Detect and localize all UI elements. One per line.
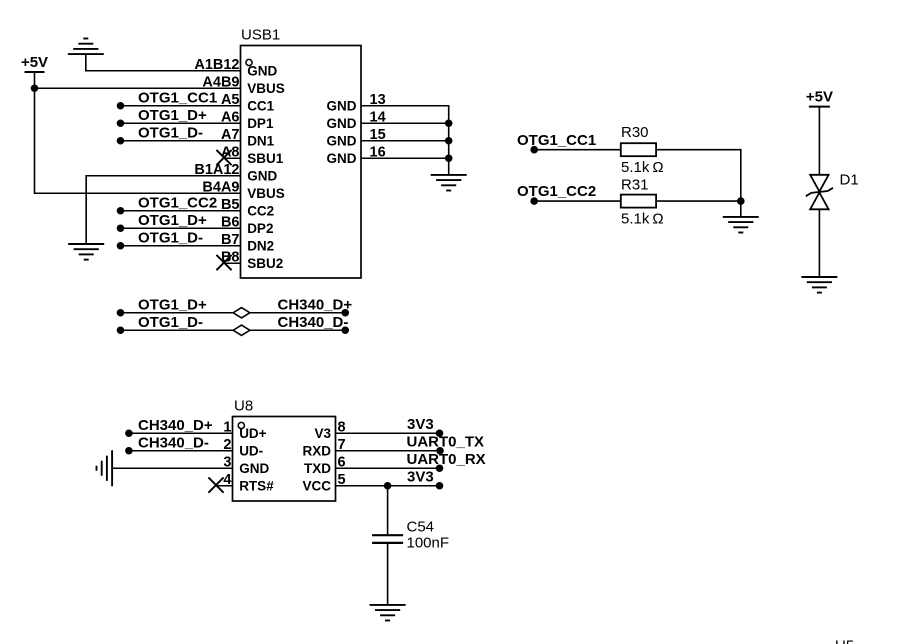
capacitor C54 body <box>372 534 403 536</box>
svg-text:OTG1_CC2: OTG1_CC2 <box>517 183 596 200</box>
junction +5V node <box>31 84 39 92</box>
resistor R31 body <box>621 195 656 208</box>
svg-text:VBUS: VBUS <box>247 186 285 201</box>
svg-text:R30: R30 <box>621 124 649 141</box>
svg-text:5.1k Ω: 5.1k Ω <box>621 211 664 228</box>
node A5 (pin wire) <box>117 102 125 110</box>
svg-text:UART0_RX: UART0_RX <box>407 451 486 468</box>
wire R30 to bus <box>656 150 741 201</box>
svg-text:OTG1_CC2: OTG1_CC2 <box>138 194 217 211</box>
svg-text:GND: GND <box>247 169 277 184</box>
svg-text:100nF: 100nF <box>407 535 450 552</box>
svg-text:OTG1_CC1: OTG1_CC1 <box>138 89 217 106</box>
resistor R30 body <box>621 143 656 156</box>
svg-text:RTS#: RTS# <box>239 479 274 494</box>
svg-text:GND: GND <box>327 99 357 114</box>
wire CH340_D+ to U8 pin1 <box>125 429 133 437</box>
wire OTG1_CC2 to R31 <box>530 197 538 205</box>
svg-text:OTG1_D+: OTG1_D+ <box>138 296 207 313</box>
svg-text:CH340_D+: CH340_D+ <box>278 296 353 313</box>
wire R31 to bus <box>656 200 741 202</box>
svg-text:U8: U8 <box>234 397 253 414</box>
svg-text:GND: GND <box>327 134 357 149</box>
connector USB1 body <box>241 46 362 279</box>
no-connect pin B8 <box>224 262 241 264</box>
svg-text:DP2: DP2 <box>247 221 273 236</box>
svg-text:U5: U5 <box>835 638 854 644</box>
wire OTG1_D+ to CH340_D+ <box>117 309 125 317</box>
wire GND A1B12 <box>86 54 241 71</box>
svg-text:OTG1_D-: OTG1_D- <box>138 314 203 331</box>
node A6 (pin wire) <box>117 119 125 127</box>
wire U8 pin3 GND <box>113 467 233 469</box>
wire U8 pin7 UART0_TX <box>336 450 441 452</box>
svg-text:CC1: CC1 <box>247 99 274 114</box>
ground (C54) <box>370 604 406 606</box>
svg-text:OTG1_D-: OTG1_D- <box>138 124 203 141</box>
junction pin14-bus <box>445 119 453 127</box>
node B6 (pin wire) <box>117 224 125 232</box>
svg-text:DP1: DP1 <box>247 116 274 131</box>
svg-text:VBUS: VBUS <box>247 81 285 96</box>
ground (USB1 right) <box>431 174 467 176</box>
svg-text:GND: GND <box>327 151 357 166</box>
junction pin15-bus <box>445 137 453 145</box>
svg-text:5.1k Ω: 5.1k Ω <box>621 159 664 176</box>
svg-text:CC2: CC2 <box>247 204 274 219</box>
junction pin16-bus <box>445 154 453 162</box>
svg-text:GND: GND <box>327 116 357 131</box>
svg-text:RXD: RXD <box>302 444 331 459</box>
svg-text:UD+: UD+ <box>239 426 266 441</box>
ground (top, pin A1B12) <box>68 53 104 55</box>
svg-text:CH340_D-: CH340_D- <box>138 434 209 451</box>
junction VCC/C54 <box>384 482 392 490</box>
wire VCC to C54 <box>387 486 389 534</box>
wire to ground (R net) <box>740 201 742 217</box>
wire OTG1_CC1 to R30 <box>530 146 538 154</box>
svg-text:R31: R31 <box>621 177 649 194</box>
svg-text:UD-: UD- <box>239 444 263 459</box>
svg-text:UART0_TX: UART0_TX <box>407 433 485 450</box>
wire CH340_D- to U8 pin2 <box>125 447 133 455</box>
svg-text:SBU1: SBU1 <box>247 151 284 166</box>
ground (left, pin B1A12) <box>68 243 104 245</box>
svg-text:3V3: 3V3 <box>407 468 434 485</box>
svg-text:CH340_D-: CH340_D- <box>278 314 349 331</box>
wire U8 pin8 3V3 <box>336 432 440 434</box>
diode D1 (bidirectional TVS) <box>810 175 828 192</box>
no-connect U8 pin4 RTS# <box>216 485 233 487</box>
svg-text:VCC: VCC <box>302 479 331 494</box>
svg-text:+5V: +5V <box>806 89 833 106</box>
svg-text:3V3: 3V3 <box>407 416 434 433</box>
ground (U8 pin3, left) <box>111 450 113 486</box>
U8 pin 1 indicator circle <box>238 422 244 428</box>
svg-text:TXD: TXD <box>304 461 331 476</box>
wire OTG1_D- to CH340_D- <box>117 326 125 334</box>
node B5 (pin wire) <box>117 207 125 215</box>
svg-text:USB1: USB1 <box>241 27 280 44</box>
svg-text:CH340_D+: CH340_D+ <box>138 417 213 434</box>
pin 1 indicator circle <box>246 59 252 65</box>
junction R30/R31 gnd node <box>737 197 745 205</box>
net-tie diamond (D-) <box>233 325 250 335</box>
svg-text:OTG1_D-: OTG1_D- <box>138 229 203 246</box>
svg-text:C54: C54 <box>407 519 435 536</box>
wire pin 16 <box>361 157 449 159</box>
svg-text:SBU2: SBU2 <box>247 256 283 271</box>
svg-text:V3: V3 <box>314 426 331 441</box>
svg-text:DN1: DN1 <box>247 134 274 149</box>
no-connect pin A8 <box>224 157 241 159</box>
IC U8 body <box>233 417 336 502</box>
svg-text:OTG1_D+: OTG1_D+ <box>138 107 207 124</box>
svg-text:GND: GND <box>247 64 277 79</box>
wire C54 to ground <box>387 544 389 605</box>
svg-text:DN2: DN2 <box>247 239 274 254</box>
svg-text:OTG1_D+: OTG1_D+ <box>138 212 207 229</box>
svg-text:GND: GND <box>239 461 269 476</box>
svg-text:D1: D1 <box>840 172 859 189</box>
ground (D1) <box>801 276 837 278</box>
wire pin 15 <box>361 140 449 142</box>
svg-text:OTG1_CC1: OTG1_CC1 <box>517 132 596 149</box>
wire pin 13 to GND bus <box>361 106 449 175</box>
wire D1 to ground <box>818 209 820 277</box>
ground (R30/R31) <box>723 216 759 218</box>
node A7 (pin wire) <box>117 137 125 145</box>
wire pin 14 <box>361 122 449 124</box>
wire VBUS A4B9 <box>35 87 241 89</box>
net-tie diamond (D+) <box>233 308 250 318</box>
wire VBUS B4A9 <box>35 88 241 193</box>
svg-text:+5V: +5V <box>21 54 48 71</box>
wire U8 pin5 VCC 3V3 <box>336 485 440 487</box>
wire GND B1A12 <box>86 176 240 244</box>
wire U8 pin6 UART0_RX <box>336 467 440 469</box>
node B7 (pin wire) <box>117 242 125 250</box>
